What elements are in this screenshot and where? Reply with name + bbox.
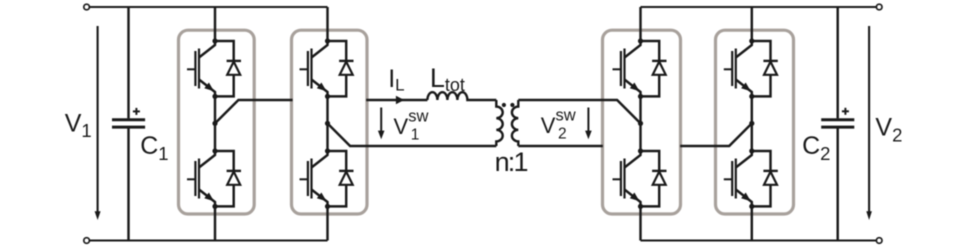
leg 1 bottom wire: [214, 206, 216, 240]
wire leg4 midpoint input: [680, 123, 752, 146]
leg 3 junction dots: [638, 38, 643, 209]
inductor Ltot: [427, 92, 496, 100]
IGBT Q8: [724, 151, 752, 206]
C2 plus sign: [842, 108, 849, 115]
leg 1 junction dots: [212, 38, 217, 209]
bridge leg 1 outline box: [179, 30, 255, 214]
wire secondary top rail: [518, 100, 640, 123]
wire top bus right: [641, 6, 877, 8]
terminal top-right: [876, 4, 882, 10]
terminal bottom-right: [876, 238, 882, 244]
IGBT Q5: [613, 41, 641, 96]
IGBT Q4: [300, 151, 328, 206]
I_L arrowhead: [396, 96, 404, 104]
wire bottom bus right: [641, 239, 877, 241]
leg 2 midpoint wire: [326, 96, 328, 151]
wire bottom bus left: [90, 239, 328, 241]
bridge leg 3 outline box: [603, 30, 681, 214]
transformer primary winding: [496, 100, 502, 146]
leg 2 junction dots: [325, 38, 330, 209]
IGBT Q7: [724, 41, 752, 96]
V1 arrow: [95, 26, 101, 220]
bridge leg 4 outline box: [716, 30, 794, 214]
diode D7: [752, 41, 778, 96]
diode D5: [641, 41, 667, 96]
capacitor C2 plates: [821, 120, 854, 127]
capacitor C2 top lead: [836, 7, 838, 118]
wire top rail with I_L: [366, 99, 427, 101]
diode D8: [752, 151, 778, 206]
V2 arrow: [866, 26, 872, 220]
leg 2 top feed wire: [326, 7, 328, 41]
leg 4 midpoint wire: [751, 96, 753, 151]
svg-text:n:1: n:1: [495, 147, 528, 177]
leg 3 bottom wire: [639, 206, 641, 240]
capacitor C1 top lead: [127, 7, 129, 118]
diode D6: [641, 151, 667, 206]
transformer secondary winding: [512, 100, 518, 146]
C1 plus sign: [133, 108, 140, 115]
leg 4 bottom wire: [751, 206, 753, 240]
leg 3 midpoint wire: [639, 96, 641, 151]
terminal top-left: [84, 4, 90, 10]
wire leg1 midpoint output: [215, 100, 293, 123]
capacitor C2 bottom lead: [836, 128, 838, 240]
IGBT Q1: [187, 41, 215, 96]
leg 4 junction dots: [749, 38, 754, 209]
primary polarity dot: [502, 103, 506, 107]
IGBT Q6: [613, 151, 641, 206]
leg 1 midpoint wire: [214, 96, 216, 151]
wire leg2 midpoint to bottom rail: [328, 123, 497, 146]
capacitor C1 bottom lead: [127, 128, 129, 240]
wire secondary bottom rail: [518, 145, 603, 147]
terminal bottom-left: [84, 238, 90, 244]
leg 3 top feed wire: [639, 7, 641, 41]
IGBT Q3: [300, 41, 328, 96]
diode D4: [328, 151, 354, 206]
diode D1: [215, 41, 241, 96]
IGBT Q2: [187, 151, 215, 206]
diode D2: [215, 151, 241, 206]
leg 2 bottom wire: [326, 206, 328, 240]
V1sw arrow: [378, 108, 385, 140]
capacitor C1 plates: [112, 120, 145, 127]
secondary polarity dot: [510, 103, 514, 107]
leg 4 top feed wire: [751, 7, 753, 41]
wire top bus left: [90, 6, 328, 8]
V2sw arrow: [585, 108, 592, 140]
bridge leg 2 outline box: [292, 30, 368, 214]
leg 1 top feed wire: [214, 7, 216, 41]
diode D3: [328, 41, 354, 96]
